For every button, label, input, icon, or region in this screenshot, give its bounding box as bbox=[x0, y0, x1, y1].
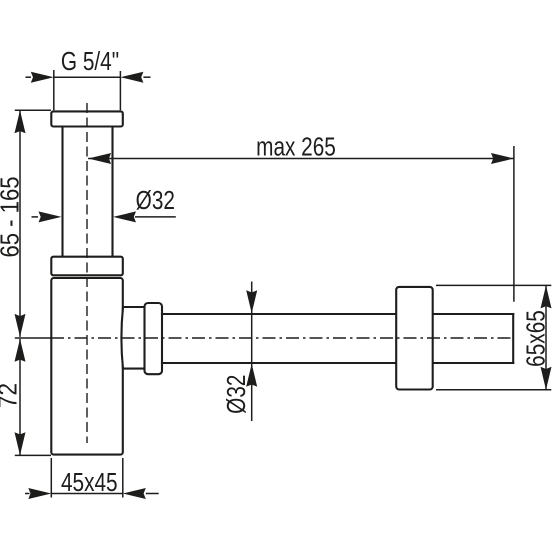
dim tail 45x45 right bbox=[146, 493, 159, 495]
horizontal centerline dash-dot bbox=[51, 337, 514, 339]
dim line 65x65 bbox=[545, 285, 547, 389]
svg-text:65x65: 65x65 bbox=[521, 310, 550, 367]
ext line G5/4 left bbox=[53, 70, 55, 110]
ext line 65x65 bottom bbox=[436, 389, 551, 391]
dim leader diam32 top right bbox=[135, 216, 176, 218]
arrow diam32 bottom up bbox=[246, 364, 257, 387]
wall block 65x65 bbox=[396, 287, 433, 390]
ext line G5/4 right bbox=[119, 71, 121, 110]
svg-text:65 - 165: 65 - 165 bbox=[0, 176, 25, 257]
top flange bbox=[51, 111, 123, 126]
side ring bbox=[145, 303, 163, 374]
ext line flange top bbox=[15, 109, 51, 111]
ext line max265 right bbox=[513, 146, 515, 302]
vertical pipe wall right bbox=[111, 127, 113, 257]
vertical pipe wall left bbox=[61, 127, 63, 257]
arrow 72 down bbox=[15, 432, 26, 455]
arrow 65x65 down bbox=[541, 367, 552, 390]
dim line G5/4 bbox=[54, 76, 121, 78]
vertical centerline bbox=[86, 103, 88, 443]
arrow G5/4 left bbox=[31, 72, 54, 83]
arrow diam32 top left bbox=[39, 211, 62, 222]
svg-text:max 265: max 265 bbox=[256, 132, 336, 161]
arrow 45x45 right bbox=[123, 488, 146, 499]
dim line 72 bbox=[19, 339, 21, 455]
nut bbox=[51, 257, 123, 276]
arrow 72 up bbox=[15, 339, 26, 362]
dim tail diam32 top left bbox=[32, 216, 39, 218]
ext line body bottom bbox=[15, 454, 51, 456]
horizontal pipe bottom bbox=[162, 362, 513, 364]
ext line 45x45 right bbox=[122, 458, 124, 498]
dim line 65-165 bbox=[19, 110, 21, 337]
dim line max265 bbox=[88, 158, 514, 160]
svg-text:45x45: 45x45 bbox=[61, 468, 118, 497]
svg-text:G 5/4": G 5/4" bbox=[61, 47, 119, 76]
svg-text:Ø32: Ø32 bbox=[136, 186, 175, 215]
dim tail 45x45 left bbox=[25, 493, 30, 495]
ext line 65x65 top bbox=[436, 284, 551, 286]
dim tail G5/4 left bbox=[26, 76, 32, 78]
side step collar bbox=[121, 307, 144, 369]
arrow 65-165 up bbox=[15, 110, 26, 133]
svg-text:Ø32: Ø32 bbox=[222, 375, 251, 414]
arrow 45x45 left bbox=[28, 488, 51, 499]
dim line 45x45 bbox=[51, 493, 123, 495]
body cup bbox=[51, 278, 123, 455]
arrow diam32 top right bbox=[113, 211, 136, 222]
dim line diam32 bottom bbox=[251, 282, 253, 422]
arrow diam32 bottom down bbox=[246, 290, 257, 313]
svg-text:72: 72 bbox=[0, 383, 23, 408]
arrow G5/4 right bbox=[120, 72, 143, 83]
horizontal pipe top bbox=[162, 313, 513, 315]
horizontal centerline solid extension bbox=[15, 337, 51, 339]
dim tail G5/4 right bbox=[143, 76, 150, 78]
arrow 65-165 down bbox=[15, 314, 26, 337]
arrow max265 right bbox=[491, 153, 514, 164]
arrow max265 left bbox=[88, 153, 111, 164]
arrow 65x65 up bbox=[541, 285, 552, 308]
horizontal pipe end cap bbox=[512, 314, 514, 363]
ext line 45x45 left bbox=[50, 458, 52, 498]
